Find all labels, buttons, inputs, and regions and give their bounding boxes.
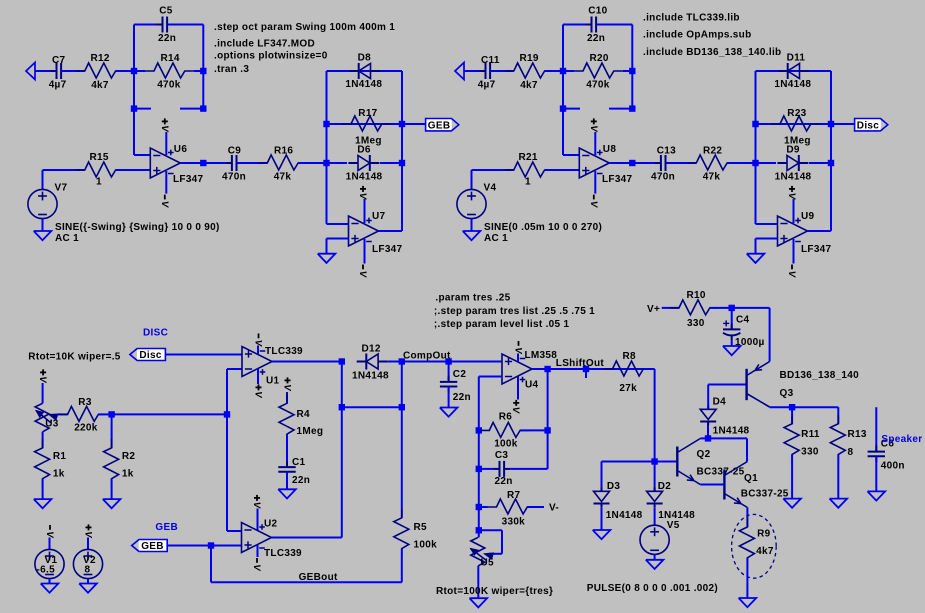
- directive .include OpAmps: [643, 29, 752, 40]
- svg-text:.param tres .25: .param tres .25: [435, 292, 510, 303]
- wire U4 out: [532, 368, 655, 370]
- svg-text:R3: R3: [78, 397, 92, 408]
- wire output: [609, 162, 632, 164]
- svg-text:D9: D9: [786, 145, 800, 156]
- wire: [746, 558, 748, 598]
- wire: [42, 383, 44, 403]
- ground: [79, 584, 97, 593]
- power flag V+: [786, 186, 797, 200]
- svg-text:1k: 1k: [53, 469, 65, 480]
- svg-text:Disc: Disc: [857, 120, 879, 131]
- junction: [729, 305, 735, 311]
- svg-text:220k: 220k: [74, 423, 98, 434]
- svg-text:V: V: [786, 193, 797, 200]
- wire wiper loop: [479, 530, 502, 554]
- input port triangle: [455, 63, 464, 80]
- svg-text:GEB: GEB: [141, 541, 164, 552]
- voltage source V7: [28, 183, 68, 219]
- wire stub: [134, 71, 151, 109]
- junction: [828, 160, 834, 166]
- svg-text:LF347: LF347: [801, 244, 832, 255]
- comparator U2: [242, 519, 303, 560]
- wire: [43, 170, 85, 190]
- svg-text:C13: C13: [657, 145, 676, 156]
- junction: [445, 358, 451, 364]
- svg-text:R17: R17: [358, 108, 377, 119]
- wire R5 vertical: [401, 362, 403, 518]
- comparator U1: [242, 346, 303, 387]
- svg-text:1: 1: [96, 177, 102, 188]
- wire output: [180, 162, 203, 164]
- voltage source V1: [35, 549, 64, 578]
- resistor R3: [59, 397, 108, 434]
- power flag V- above V1: [44, 525, 55, 538]
- op-amp U9: [778, 211, 832, 255]
- resistor R20: [574, 53, 623, 91]
- svg-text:Q2: Q2: [697, 449, 711, 460]
- dashed ellipse around R9: [732, 514, 777, 578]
- capacitor C1: [278, 457, 310, 486]
- svg-text:.include LF347.MOD: .include LF347.MOD: [214, 39, 315, 50]
- power flag V- below U2: [251, 558, 262, 571]
- power label V-: [549, 502, 559, 513]
- wire C3 row: [479, 468, 548, 470]
- wire to port: [831, 123, 855, 125]
- wire Q1 collector: [746, 438, 748, 461]
- svg-text:4µ7: 4µ7: [478, 80, 496, 91]
- resistor R10: [670, 290, 719, 329]
- wire feedback left: [563, 25, 589, 72]
- wire: [710, 307, 770, 309]
- junction: [200, 105, 206, 111]
- junction: [399, 121, 405, 127]
- svg-text:C11: C11: [481, 55, 500, 66]
- output port Disc: [855, 119, 888, 132]
- svg-text:22n: 22n: [453, 392, 471, 403]
- svg-text:DISC: DISC: [143, 328, 168, 339]
- svg-text:GEBout: GEBout: [299, 572, 338, 583]
- svg-text:D6: D6: [357, 145, 371, 156]
- input port triangle: [26, 63, 35, 80]
- svg-text:V: V: [588, 125, 599, 132]
- wire stub: [609, 71, 632, 109]
- svg-text:V: V: [786, 271, 797, 278]
- svg-text:22n: 22n: [587, 33, 605, 44]
- junction: [476, 427, 482, 433]
- svg-text:22n: 22n: [158, 33, 176, 44]
- svg-text:V5: V5: [667, 520, 680, 531]
- op-amp U4 power pins: [518, 354, 525, 400]
- wire U1 inverting: [227, 368, 242, 370]
- net label Speaker: [881, 434, 922, 445]
- svg-text:R7: R7: [507, 490, 521, 501]
- svg-text:Speaker: Speaker: [881, 434, 922, 445]
- diode D9: [775, 145, 812, 183]
- wire: [654, 554, 656, 559]
- input port GEB: [132, 540, 168, 553]
- svg-text:27k: 27k: [619, 383, 637, 394]
- voltage source V2: [73, 549, 102, 578]
- svg-text:U7: U7: [372, 211, 386, 222]
- svg-text:R4: R4: [297, 409, 311, 420]
- ground: [103, 499, 121, 508]
- svg-text:1N4148: 1N4148: [345, 79, 382, 90]
- resistor R12: [76, 53, 125, 91]
- svg-text:U4: U4: [525, 380, 539, 391]
- junction: [789, 404, 795, 410]
- svg-text:V: V: [588, 201, 599, 208]
- diode D11: [774, 53, 811, 91]
- wire: [601, 507, 603, 530]
- wire D4 cathode: [707, 422, 709, 439]
- wire stub: [180, 71, 203, 109]
- svg-text:1N4148: 1N4148: [775, 171, 812, 182]
- ground: [830, 499, 848, 508]
- wire: [87, 538, 89, 550]
- capacitor C11: [478, 55, 500, 91]
- directive .include LF347: [214, 39, 315, 50]
- svg-text:D3: D3: [607, 481, 621, 492]
- net name CompOut: [403, 351, 451, 362]
- wire: [298, 162, 326, 164]
- svg-text:C9: C9: [228, 145, 242, 156]
- diode D8: [345, 53, 382, 91]
- wire D3 drop: [601, 462, 603, 492]
- wire: [479, 429, 548, 431]
- svg-text:BD136_138_140: BD136_138_140: [780, 370, 860, 381]
- wire input node: [35, 70, 57, 72]
- junction: [399, 160, 405, 166]
- svg-text:Rtot=100K wiper={tres}: Rtot=100K wiper={tres}: [436, 586, 553, 597]
- ground: [34, 231, 52, 240]
- svg-text:V: V: [82, 531, 93, 538]
- wire C4 top: [731, 308, 733, 330]
- wire noninverting to ground: [756, 239, 778, 254]
- wire: [49, 579, 51, 584]
- svg-text:TLC339: TLC339: [265, 346, 303, 357]
- svg-text:LF347: LF347: [372, 244, 403, 255]
- resistor R5: [394, 509, 437, 558]
- svg-text:R22: R22: [703, 145, 722, 156]
- wire: [116, 70, 134, 72]
- wire Q2 collector: [700, 437, 747, 439]
- svg-text:D11: D11: [787, 53, 806, 64]
- svg-text:330: 330: [687, 318, 705, 329]
- svg-text:.include TLC339.lib: .include TLC339.lib: [643, 13, 740, 24]
- svg-text:R23: R23: [787, 108, 806, 119]
- svg-text:.tran .3: .tran .3: [214, 64, 249, 75]
- resistor R14: [145, 53, 194, 91]
- diode D6: [346, 145, 383, 183]
- wire: [731, 340, 733, 346]
- wire: [478, 507, 480, 530]
- resistor R22: [687, 145, 736, 182]
- wire R2 top: [111, 414, 113, 448]
- junction: [629, 160, 635, 166]
- wire wiper to R3: [57, 413, 68, 415]
- junction: [544, 366, 550, 372]
- wire GEBout vertical: [211, 546, 402, 583]
- wire D6 row: [756, 162, 832, 164]
- wire: [472, 170, 514, 190]
- svg-text:1N4148: 1N4148: [606, 510, 643, 521]
- junction: [200, 68, 206, 74]
- svg-text:C7: C7: [52, 55, 66, 66]
- junction: [476, 527, 482, 533]
- svg-text:.options plotwinsize=0: .options plotwinsize=0: [214, 51, 328, 62]
- wire: [42, 479, 44, 499]
- wire clipper right vertical: [830, 71, 832, 231]
- power flag V+ above V2: [82, 524, 93, 538]
- ground: [747, 254, 765, 263]
- directive .include TLC339: [643, 13, 740, 24]
- svg-text:400n: 400n: [881, 460, 905, 471]
- power flag V- above U1: [252, 334, 263, 347]
- svg-text:4k7: 4k7: [756, 546, 774, 557]
- svg-text:C3: C3: [495, 450, 509, 461]
- transistor Q3: [747, 362, 860, 408]
- power flag V-: [786, 265, 797, 278]
- svg-text:8: 8: [85, 565, 91, 576]
- ground: [723, 346, 741, 355]
- svg-text:R10: R10: [687, 290, 706, 301]
- svg-text:R19: R19: [520, 53, 539, 64]
- svg-text:100k: 100k: [494, 439, 518, 450]
- wire output: [808, 230, 832, 232]
- svg-text:8: 8: [848, 447, 854, 458]
- svg-text:R8: R8: [623, 351, 637, 362]
- capacitor C7: [49, 55, 67, 91]
- svg-text:SINE(0 .05m 10 0 0 270): SINE(0 .05m 10 0 0 270): [484, 222, 602, 233]
- svg-text:R14: R14: [161, 53, 180, 64]
- pot U3 wiper arrow: [36, 411, 58, 423]
- svg-text:V4: V4: [484, 183, 497, 194]
- wire: [203, 162, 226, 164]
- junction: [224, 411, 230, 417]
- svg-text:22n: 22n: [292, 475, 310, 486]
- wire Q3 collector row: [770, 406, 839, 408]
- power flag V- above U4: [512, 341, 523, 354]
- svg-text:V: V: [281, 384, 292, 391]
- net label GEB: [155, 522, 178, 533]
- svg-text:1N4148: 1N4148: [713, 426, 750, 437]
- wire input node: [464, 70, 486, 72]
- wire: [286, 392, 288, 403]
- op-amp U7 power pins: [365, 199, 372, 264]
- junction: [399, 404, 405, 410]
- svg-text:R1: R1: [53, 451, 67, 462]
- svg-text:100k: 100k: [414, 540, 438, 551]
- power label V+: [647, 304, 660, 315]
- wire to port: [402, 123, 426, 125]
- ground: [739, 598, 757, 607]
- svg-text:PULSE(0 8 0 0 0 .001 .002): PULSE(0 8 0 0 0 .001 .002): [587, 583, 718, 594]
- svg-text:GEB: GEB: [428, 120, 451, 131]
- svg-text:1N4148: 1N4148: [346, 171, 383, 182]
- power flag V+ below U4: [510, 400, 521, 414]
- net name LShiftOut: [556, 358, 605, 369]
- resistor R6: [480, 412, 529, 450]
- svg-text:LF347: LF347: [173, 174, 204, 185]
- svg-text:BC337-25: BC337-25: [741, 489, 789, 500]
- potentiometer U3: [35, 403, 59, 432]
- ground: [34, 499, 52, 508]
- text Rtot=100K: [436, 586, 553, 597]
- output port GEB: [426, 119, 459, 132]
- wire D4 anode: [707, 385, 709, 410]
- power flag V+: [159, 118, 170, 132]
- svg-text:1: 1: [525, 177, 531, 188]
- svg-text:47k: 47k: [703, 172, 721, 183]
- ground: [593, 530, 611, 539]
- op-amp U4: [502, 350, 557, 391]
- junction: [476, 466, 482, 472]
- input port Disc: [130, 349, 166, 362]
- resistor R4: [279, 394, 323, 443]
- svg-text:V-: V-: [549, 502, 559, 513]
- resistor R15: [76, 152, 125, 188]
- wire R11 top: [791, 407, 793, 424]
- power flag V+ above U2: [251, 495, 262, 509]
- wire: [666, 162, 696, 164]
- junction: [828, 121, 834, 127]
- wire D6 row: [327, 162, 403, 164]
- svg-text:CompOut: CompOut: [403, 351, 451, 362]
- svg-text:R13: R13: [848, 429, 867, 440]
- directive .tran: [214, 64, 249, 75]
- capacitor C13: [651, 145, 676, 182]
- resistor R16: [258, 145, 307, 182]
- power flag V+ above R4: [281, 377, 292, 391]
- wire U4 inv: [479, 377, 502, 431]
- diode D12: [352, 344, 389, 382]
- resistor R19: [505, 53, 554, 91]
- capacitor C6: [868, 439, 905, 472]
- junction: [752, 121, 758, 127]
- wire: [471, 219, 473, 231]
- ground: [463, 231, 481, 240]
- junction: [200, 160, 206, 166]
- directive .param tres: [435, 292, 510, 303]
- svg-text:GEB: GEB: [155, 522, 178, 533]
- value V4 SINE: [484, 222, 602, 244]
- wire: [98, 413, 227, 415]
- wire R13 top: [837, 407, 839, 424]
- ground: [470, 598, 488, 607]
- wire: [478, 469, 480, 507]
- resistor R13: [830, 415, 867, 464]
- wire vertical to U1/U2 inverting: [227, 369, 242, 531]
- svg-text:470k: 470k: [157, 80, 181, 91]
- wire: [168, 25, 204, 72]
- wire feedback left: [134, 25, 160, 72]
- wire: [654, 507, 656, 525]
- junction: [323, 121, 329, 127]
- wire R17 row: [756, 123, 832, 125]
- op-amp U9 power pins: [794, 199, 801, 264]
- svg-text:LM358: LM358: [525, 350, 558, 361]
- wire: [597, 25, 633, 72]
- ground: [783, 499, 801, 508]
- directive .options: [214, 51, 328, 62]
- svg-text:1Meg: 1Meg: [297, 426, 324, 437]
- svg-text:V7: V7: [55, 183, 68, 194]
- wire: [61, 70, 85, 72]
- capacitor C3: [494, 450, 513, 487]
- svg-text:V: V: [37, 376, 48, 383]
- potentiometer U5: [471, 537, 494, 568]
- wire: [286, 434, 288, 462]
- wire to inverting input: [134, 109, 150, 155]
- ground: [868, 491, 886, 500]
- svg-text:D12: D12: [362, 344, 381, 355]
- svg-text:;.step param level list .05 1: ;.step param level list .05 1: [434, 319, 570, 330]
- svg-text:U1: U1: [266, 376, 280, 387]
- comparator U2 power pins: [258, 509, 265, 558]
- wire: [662, 307, 679, 309]
- junction: [560, 68, 566, 74]
- op-amp U8 power pins: [595, 132, 602, 194]
- svg-text:C4: C4: [736, 315, 750, 326]
- power flag V+ below U1: [252, 384, 263, 398]
- resistor R23: [771, 108, 820, 147]
- svg-text:330: 330: [801, 447, 819, 458]
- svg-text:Disc: Disc: [139, 350, 161, 361]
- svg-text:R21: R21: [519, 152, 538, 163]
- wire: [545, 70, 563, 72]
- power flag V-: [357, 265, 368, 278]
- ground: [41, 584, 59, 593]
- power flag V-: [159, 195, 170, 208]
- svg-text:TLC339: TLC339: [264, 548, 302, 559]
- junction: [108, 411, 114, 417]
- svg-text:V: V: [357, 193, 368, 200]
- wire Q3 base: [708, 384, 746, 386]
- net label DISC: [143, 328, 168, 339]
- capacitor C2: [440, 362, 471, 404]
- wire noninverting to ground: [327, 239, 349, 254]
- junction: [131, 105, 137, 111]
- svg-text:D8: D8: [358, 53, 372, 64]
- capacitor C10: [586, 5, 608, 44]
- wire top row: [756, 70, 832, 72]
- wire: [727, 162, 755, 164]
- wire: [875, 456, 877, 491]
- junction: [629, 105, 635, 111]
- wire: [116, 169, 151, 171]
- junction: [323, 160, 329, 166]
- wire R8 to base node: [643, 369, 654, 462]
- wire: [237, 162, 267, 164]
- junction: [339, 358, 345, 364]
- junction: [208, 542, 214, 548]
- svg-text:R20: R20: [590, 53, 609, 64]
- resistor R7: [488, 490, 537, 528]
- svg-text:D2: D2: [658, 481, 672, 492]
- wire speaker net: [875, 407, 877, 451]
- pot U5 wiper arrow: [471, 549, 494, 561]
- wire: [448, 387, 450, 408]
- svg-text:R16: R16: [274, 145, 293, 156]
- svg-text:C2: C2: [453, 369, 467, 380]
- wire: [49, 538, 51, 550]
- svg-text:V: V: [252, 391, 263, 398]
- power flag V+: [357, 186, 368, 200]
- wire: [837, 455, 839, 499]
- capacitor C5: [157, 5, 177, 44]
- svg-text:1N4148: 1N4148: [352, 371, 389, 382]
- svg-text:R9: R9: [757, 529, 771, 540]
